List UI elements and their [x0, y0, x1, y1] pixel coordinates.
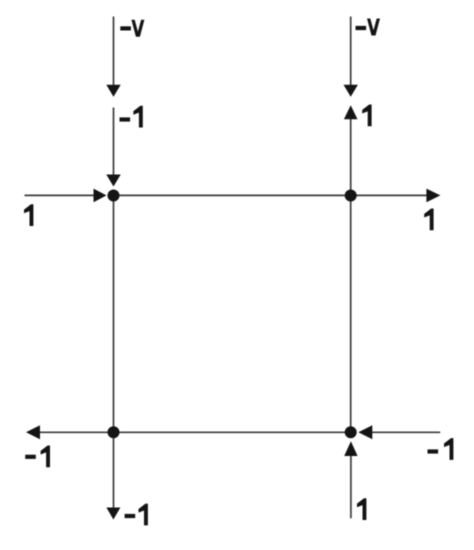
arrowhead: -1 edge down into top-left node: [106, 175, 120, 187]
wire: 1 feeder up into bottom-right node: [350, 456, 352, 518]
node: top-left vertex: [108, 190, 120, 202]
wire: left side of square: [113, 196, 115, 433]
arrowhead: -v feeder down, top-left: [106, 85, 120, 97]
label: -v on top-right feeder: [356, 26, 367, 30]
arrowhead: -v feeder down, top-right: [344, 85, 358, 97]
label: 1 on bottom-right up feeder: [357, 498, 366, 520]
wire: -v feeder into top-right node: [350, 17, 352, 86]
wire: -1 edge out below bottom-left node: [113, 432, 115, 507]
node: bottom-left vertex: [108, 426, 120, 438]
wire: 1 edge up out of top-right node: [350, 119, 352, 196]
label: 1 on right out edge: [424, 209, 433, 231]
wire: 1 feeder from left into top-left node: [25, 194, 95, 196]
node: top-right vertex: [345, 190, 357, 202]
wire: 1 edge out right of top-right node: [351, 194, 427, 196]
label: 1 on top-right up edge: [362, 105, 371, 127]
wire: -1 feeder from right into bottom-right node: [372, 431, 440, 433]
label: 1 on left feeder: [24, 204, 33, 226]
arrowhead: 1 edge up from top-right node: [344, 105, 358, 119]
node: bottom-right vertex: [345, 426, 357, 438]
label: -1 on top-left down edge: [120, 117, 131, 121]
label: -1 on bottom-left down edge: [125, 514, 136, 518]
arrowhead: -1 edge down from bottom-left node: [106, 508, 120, 520]
wire: -1 edge into top-left node: [113, 108, 115, 176]
arrowhead: 1 feeder right into top-left node: [94, 189, 107, 203]
arrowhead: 1 feeder up into bottom-right node: [344, 441, 357, 456]
label: -1 on bottom-left out edge: [25, 455, 36, 459]
label: -v on top-left feeder: [120, 26, 131, 30]
label: -1 on bottom-right feeder: [428, 449, 439, 453]
wire: -v feeder into top-left node: [113, 17, 115, 86]
wire: -1 edge out left of bottom-left node: [40, 431, 114, 433]
arrowhead: -1 edge left out of bottom-left node: [26, 425, 40, 439]
wire: top side of square: [114, 194, 351, 196]
arrowhead: -1 feeder left into bottom-right node: [358, 425, 372, 439]
wire: right side of square: [350, 196, 352, 433]
arrowhead: 1 edge right out of top-right node: [426, 189, 440, 203]
wire: bottom side of square: [114, 431, 351, 433]
